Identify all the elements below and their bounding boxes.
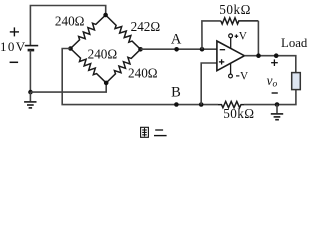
svg-text:Load: Load (281, 36, 308, 50)
wire right vertex to op-amp inverting input (141, 48, 217, 50)
node A (174, 47, 179, 52)
node feedback junction at inverting input (200, 47, 205, 52)
pin +V supply (229, 34, 233, 49)
label 240Ω center (88, 47, 118, 62)
svg-text:240Ω: 240Ω (55, 14, 85, 29)
svg-text:vo: vo (267, 73, 278, 90)
label vo (267, 73, 278, 90)
label 10V (0, 39, 27, 54)
label -V (236, 75, 239, 77)
node bridge top vertex (103, 13, 108, 18)
svg-text:242Ω: 242Ω (131, 19, 161, 34)
wire battery+ to bridge top (30, 6, 105, 46)
svg-text:240Ω: 240Ω (88, 47, 118, 62)
pin -V supply (229, 63, 233, 78)
label 50kΩ feedback (219, 2, 251, 17)
wire feedback loop (202, 21, 221, 49)
wire left vertex down and along bottom (62, 49, 218, 105)
load resistor RL (292, 73, 301, 90)
caption 圖 二 (Figure 2) (141, 127, 167, 137)
label 242Ω (131, 19, 161, 34)
svg-text:10V: 10V (0, 39, 27, 54)
wire ground junction to bridge bottom vertex (31, 83, 107, 92)
resistor 50kΩ (bottom, to ground) (218, 102, 244, 108)
node junction to noninverting input (199, 102, 204, 107)
label + (vo) (271, 59, 278, 66)
svg-text:50kΩ: 50kΩ (219, 2, 251, 17)
wire battery- down to ground junction (29, 50, 31, 92)
node B (174, 102, 179, 107)
label A (171, 31, 182, 47)
label 240Ω top-left (55, 14, 85, 29)
label − (battery) (10, 61, 19, 63)
node junction battery/ground (28, 90, 33, 95)
wire op-amp output to load (244, 56, 295, 73)
svg-text:V: V (240, 70, 249, 82)
label +V (235, 34, 239, 38)
resistor 242Ω (bridge top-right arm) (106, 15, 141, 49)
label 50kΩ bottom (223, 106, 254, 121)
svg-text:50kΩ: 50kΩ (223, 106, 254, 121)
label − (vo) (272, 92, 278, 94)
node bridge bottom vertex (104, 81, 109, 86)
battery 10V (25, 46, 38, 51)
wire feedback right side down to output (257, 21, 259, 56)
svg-text:V: V (239, 30, 248, 42)
node bridge right vertex (138, 47, 143, 52)
node output wire junction (274, 53, 279, 58)
svg-text:B: B (171, 84, 181, 100)
resistor 240Ω (bridge top-left arm) (71, 15, 106, 49)
svg-text:240Ω: 240Ω (128, 65, 158, 80)
wire bottom resistor to ground junction and load bottom (244, 90, 296, 105)
wire up to noninverting input (201, 63, 217, 105)
op-amp U1 (217, 41, 245, 71)
node junction output ground (275, 102, 280, 107)
svg-text:A: A (171, 31, 182, 47)
resistor 50kΩ (feedback) (221, 18, 259, 24)
label Load (281, 36, 308, 50)
node bridge left vertex (68, 46, 73, 51)
label + (battery) (10, 27, 19, 36)
label 240Ω bottom-right (128, 65, 158, 80)
node output/feedback junction (256, 53, 261, 58)
resistor 240Ω (bridge bottom-right arm) (106, 49, 140, 83)
resistor 240Ω (bridge bottom-left arm) (71, 49, 107, 83)
ground (output) (271, 105, 283, 120)
label B (171, 84, 181, 100)
ground (battery) (24, 92, 36, 108)
